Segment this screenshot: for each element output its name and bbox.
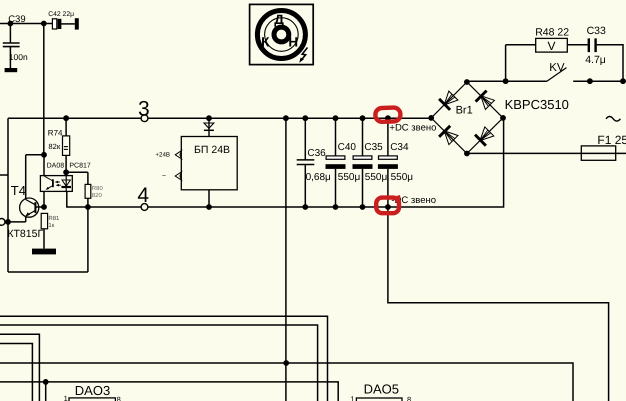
svg-text:4: 4 bbox=[137, 184, 149, 207]
wire bus 5 bbox=[0, 363, 573, 401]
wire bus 2 bbox=[0, 325, 318, 401]
wire 3 left segment bbox=[8, 117, 141, 119]
node bridge right bbox=[500, 115, 506, 121]
node C36 top bbox=[302, 115, 308, 121]
svg-text:KV: KV bbox=[549, 62, 565, 74]
node C33 return junction bbox=[620, 78, 626, 84]
node junction C39 top bbox=[7, 21, 13, 27]
svg-text:550μ: 550μ bbox=[365, 172, 388, 183]
annotation red circle top bbox=[375, 107, 400, 122]
arrow minus output bbox=[175, 172, 181, 180]
capacitor C42 minus plate bbox=[58, 19, 62, 29]
transistor T4 base bar bbox=[34, 202, 36, 213]
node bus5 junction bbox=[283, 360, 289, 366]
wire opto to R80 branch bbox=[66, 171, 88, 173]
wire opto pin1 lead bbox=[43, 155, 45, 176]
node C34 bottom bbox=[385, 204, 391, 210]
optocoupler U-DA08 body bbox=[40, 176, 72, 192]
node R74 top bbox=[63, 115, 69, 121]
wire bridge top to KV net bbox=[467, 80, 506, 82]
wire C33 right lead bbox=[597, 45, 623, 81]
wire R48 to C33 bbox=[567, 44, 587, 46]
ground C39 bbox=[5, 68, 18, 72]
wire bus 1 bbox=[0, 316, 328, 401]
wire emitter horizontal bbox=[8, 221, 26, 223]
svg-text:Н: Н bbox=[288, 34, 298, 49]
node KV mid bbox=[587, 78, 593, 84]
capacitor C39 bbox=[3, 42, 20, 44]
svg-text:PC817: PC817 bbox=[69, 162, 91, 169]
wire R74 top lead bbox=[65, 118, 67, 136]
wire C39 top lead bbox=[9, 24, 11, 43]
wire C36 top lead bbox=[304, 118, 306, 160]
svg-text:T4: T4 bbox=[11, 183, 26, 198]
logo lightning arrow bbox=[301, 48, 308, 61]
wire C39 bottom lead bbox=[9, 47, 11, 68]
logo middle circle bbox=[265, 18, 299, 52]
node opto anode bbox=[63, 169, 69, 175]
transistor T4 emitter bbox=[26, 210, 35, 215]
ic DAO3 body bbox=[69, 398, 115, 401]
wire C42 right lead bbox=[61, 23, 74, 25]
wire DC-link vertical bbox=[285, 118, 287, 401]
wire bus 3 bbox=[0, 334, 39, 401]
wire 4 left segment bbox=[88, 206, 141, 208]
node C40 bottom bbox=[333, 204, 339, 210]
svg-text:DA08: DA08 bbox=[47, 162, 65, 169]
svg-text:1к: 1к bbox=[48, 222, 54, 229]
svg-text:V: V bbox=[547, 39, 555, 53]
node bus6 junction bbox=[43, 379, 49, 385]
wire R80 bottom lead bbox=[87, 198, 89, 207]
svg-text:R74: R74 bbox=[48, 128, 63, 137]
wire C34 bottom lead bbox=[387, 169, 389, 207]
svg-text:+24В: +24В bbox=[155, 151, 170, 158]
node DC-link crossing top bbox=[283, 115, 289, 121]
node KV left junction bbox=[503, 78, 509, 84]
wire opto pin4 lead bbox=[67, 191, 88, 207]
svg-text:82к: 82к bbox=[48, 142, 60, 151]
svg-text:8: 8 bbox=[407, 395, 411, 401]
node C34 top bbox=[385, 115, 391, 121]
wire R81 bottom lead bbox=[43, 229, 45, 249]
wire opto pin2 lead bbox=[43, 191, 45, 207]
wire BP bottom lead bbox=[208, 190, 210, 207]
wire bus 4 bbox=[0, 344, 32, 401]
wire KV right segment bbox=[573, 80, 626, 82]
diode bridge bottom-left bbox=[439, 126, 450, 137]
transistor T4 collector bbox=[26, 200, 36, 205]
terminal left edge bbox=[0, 219, 5, 226]
diode bridge top-left bbox=[439, 99, 450, 110]
wire R48 left lead bbox=[506, 44, 536, 46]
capacitor C42 plus plate bbox=[52, 19, 56, 29]
power supply BP24V body bbox=[181, 137, 237, 190]
svg-text:R80: R80 bbox=[92, 185, 104, 192]
logo inner ring bbox=[274, 27, 289, 42]
svg-text:F1 25: F1 25 bbox=[597, 133, 626, 147]
wire loop right vertical bbox=[87, 207, 89, 272]
terminal 3 bbox=[141, 115, 148, 122]
wire R80 top lead bbox=[87, 172, 89, 184]
svg-text:C40: C40 bbox=[338, 142, 357, 153]
wire C35 top lead bbox=[362, 118, 364, 156]
svg-text:C36: C36 bbox=[307, 148, 326, 159]
node base junction bbox=[41, 204, 47, 210]
terminal bar C42 bbox=[75, 18, 79, 29]
svg-text:C33: C33 bbox=[587, 25, 606, 37]
node R80-wire4 junction bbox=[85, 204, 91, 210]
wire C35 bottom lead bbox=[362, 169, 364, 207]
capacitor C36 bbox=[297, 159, 315, 161]
svg-text:R81: R81 bbox=[48, 215, 60, 222]
svg-text:DAO3: DAO3 bbox=[75, 383, 110, 398]
node junction C42 left bbox=[41, 21, 47, 27]
wire loop left vertical bbox=[7, 118, 9, 272]
svg-text:C34: C34 bbox=[390, 142, 409, 153]
bridge Br1 frame bbox=[431, 82, 503, 154]
transistor T4 body bbox=[20, 198, 39, 217]
node bridge left bbox=[428, 115, 434, 121]
node collector-opto junction bbox=[41, 152, 47, 158]
resistor R80 bbox=[85, 184, 91, 198]
svg-text:820: 820 bbox=[92, 192, 103, 199]
node C35 top bbox=[360, 115, 366, 121]
svg-text:БП 24В: БП 24В bbox=[194, 144, 230, 156]
wire vertical from C42 node down to opto net bbox=[43, 24, 45, 155]
node C36 bottom bbox=[302, 204, 308, 210]
wire top-left horizontal bbox=[0, 23, 52, 25]
svg-text:DAO5: DAO5 bbox=[364, 382, 399, 397]
label AC tilde bbox=[606, 117, 620, 122]
svg-text:C39: C39 bbox=[8, 14, 25, 25]
svg-text:100n: 100n bbox=[9, 52, 28, 62]
svg-text:8: 8 bbox=[117, 395, 121, 401]
svg-text:−: − bbox=[162, 173, 166, 180]
svg-text:R48 22: R48 22 bbox=[535, 26, 569, 38]
wire bridge bottom to F1 bbox=[467, 152, 626, 154]
diode D bbox=[204, 123, 214, 128]
diode bridge top-right bbox=[476, 91, 487, 102]
capacitor C40 bbox=[326, 156, 345, 159]
wire 4 right segment bbox=[148, 118, 504, 207]
fuse F1 bbox=[581, 146, 615, 160]
capacitor C35 bbox=[353, 156, 372, 159]
logo frame bbox=[250, 4, 314, 64]
svg-text:4.7μ: 4.7μ bbox=[585, 54, 606, 66]
wire collector horizontal bbox=[26, 154, 44, 156]
annotation red circle bottom bbox=[376, 198, 399, 214]
svg-text:Д: Д bbox=[274, 12, 284, 27]
svg-text:1: 1 bbox=[64, 394, 68, 401]
svg-text:550μ: 550μ bbox=[338, 172, 361, 183]
node C35 bottom bbox=[360, 204, 366, 210]
node bridge top bbox=[464, 79, 470, 85]
svg-text:C42 22μ: C42 22μ bbox=[48, 11, 74, 18]
node diode D top bbox=[206, 115, 212, 121]
node C40 top bbox=[333, 115, 339, 121]
capacitor C34 bbox=[379, 156, 398, 159]
ground T4 bbox=[32, 249, 56, 255]
wire R74 bottom lead bbox=[65, 155, 67, 175]
terminal 4 bbox=[141, 204, 148, 211]
svg-text:1: 1 bbox=[350, 394, 354, 401]
svg-text:3: 3 bbox=[138, 98, 150, 121]
ic DAO5 body bbox=[356, 398, 402, 401]
optocoupler phototransistor bbox=[52, 179, 54, 187]
wire R48 branch up bbox=[505, 45, 507, 81]
node BP bottom junction bbox=[206, 204, 212, 210]
wire -DC link down bbox=[388, 207, 609, 401]
diode bridge bottom-right bbox=[475, 135, 486, 146]
svg-text:Br1: Br1 bbox=[456, 105, 473, 117]
wire left-edge stub bbox=[0, 174, 8, 176]
resistor R81 bbox=[41, 213, 47, 228]
wire 3 right segment bbox=[148, 117, 432, 119]
svg-text:C35: C35 bbox=[364, 142, 383, 153]
svg-text:+DC звено: +DC звено bbox=[389, 123, 436, 134]
varistor R48 bbox=[536, 38, 568, 52]
wire C40 bottom lead bbox=[335, 169, 337, 207]
optocoupler light arrows bbox=[56, 181, 60, 183]
optocoupler LED bbox=[65, 176, 67, 187]
diode D lead bbox=[208, 118, 210, 136]
logo outer ring bbox=[257, 11, 305, 59]
wire bus6 drop bbox=[45, 382, 47, 401]
svg-text:КТ815Г: КТ815Г bbox=[7, 228, 43, 240]
capacitor C33 bbox=[588, 38, 590, 52]
wire bus 6 bbox=[0, 382, 338, 401]
svg-text:К: К bbox=[261, 34, 270, 49]
wire C34 top lead bbox=[387, 118, 389, 156]
node emitter-loop junction bbox=[5, 219, 11, 225]
switch KV blade bbox=[547, 68, 567, 82]
svg-text:0,68μ: 0,68μ bbox=[306, 172, 331, 183]
wire loop bottom horizontal bbox=[8, 271, 88, 273]
wire C40 top lead bbox=[335, 118, 337, 156]
node bridge bottom bbox=[464, 151, 470, 157]
resistor R74 bbox=[63, 136, 70, 156]
svg-text:KBPC3510: KBPC3510 bbox=[505, 97, 569, 112]
wire C36 bottom lead bbox=[304, 165, 306, 208]
wire KV fixed segment bbox=[506, 80, 547, 82]
arrow +24V output bbox=[175, 151, 181, 159]
transistor T4 base wire bbox=[35, 206, 44, 208]
svg-text:550μ: 550μ bbox=[391, 172, 414, 183]
